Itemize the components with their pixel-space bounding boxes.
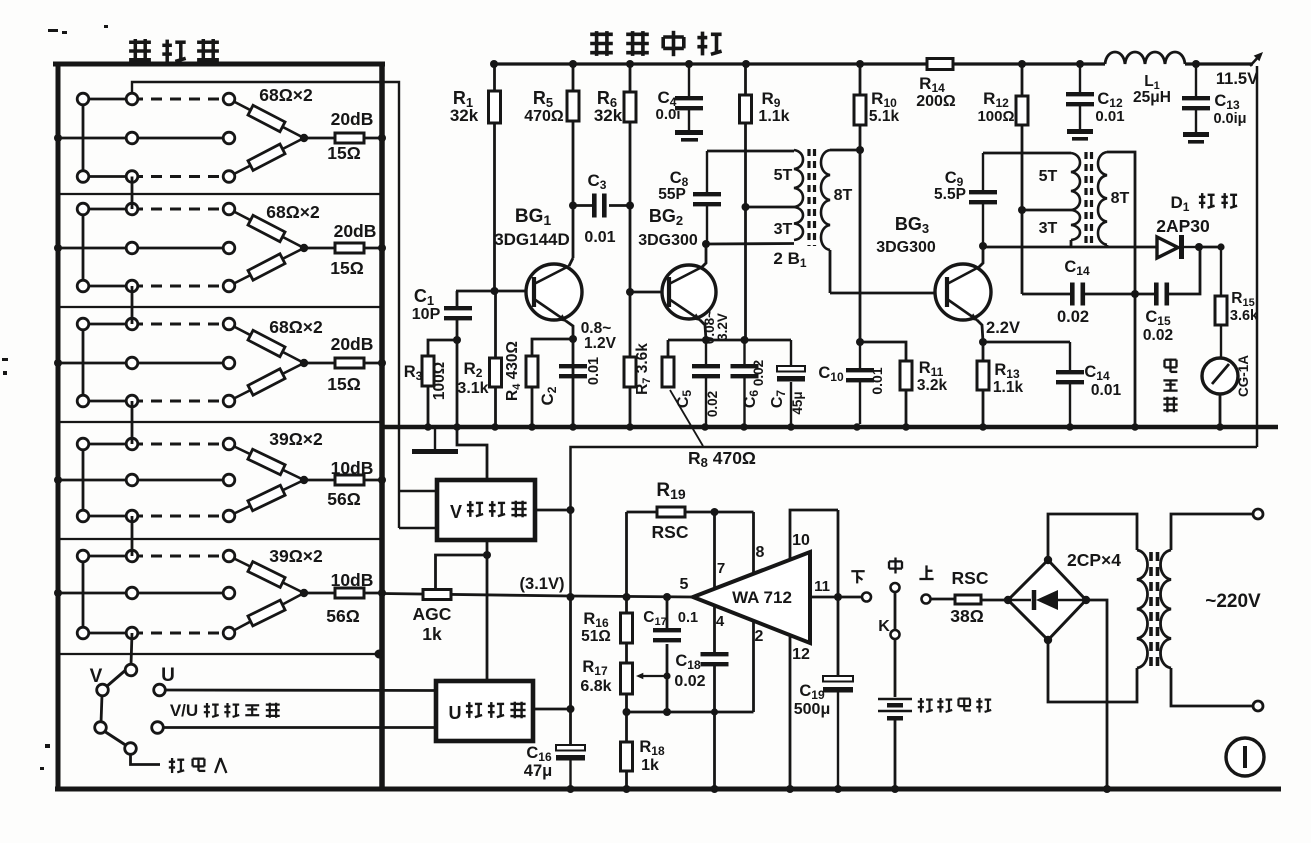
svg-text:V/U: V/U bbox=[170, 701, 198, 720]
svg-text:0.02: 0.02 bbox=[1143, 327, 1173, 344]
svg-text:56Ω: 56Ω bbox=[326, 606, 360, 626]
wire bridge bottom to transformer bbox=[1048, 640, 1137, 702]
power transformer core bbox=[1151, 552, 1158, 666]
resistor R10 bbox=[854, 95, 866, 125]
wire output stage 4 bbox=[304, 479, 382, 482]
resistor R2 bbox=[490, 358, 502, 387]
switch contact U bbox=[154, 684, 166, 696]
svg-text:47μ: 47μ bbox=[524, 762, 552, 780]
label R12 100 bbox=[977, 89, 1014, 125]
wire C18 down bbox=[713, 666, 716, 789]
label 2AP30 bbox=[1156, 216, 1210, 236]
transformer 2B1 secondary 8T bbox=[821, 150, 830, 250]
wire pin10 bbox=[790, 510, 838, 559]
svg-text:U: U bbox=[161, 665, 175, 686]
svg-text:12: 12 bbox=[792, 646, 810, 663]
svg-text:68Ω×2: 68Ω×2 bbox=[269, 317, 323, 337]
label L1 25uH bbox=[1133, 73, 1171, 106]
svg-text:5: 5 bbox=[680, 576, 689, 593]
label C15 value bbox=[1143, 327, 1173, 344]
svg-text:20dB: 20dB bbox=[331, 109, 374, 129]
svg-text:10dB: 10dB bbox=[331, 570, 374, 590]
label 10dB stage 4 bbox=[331, 458, 374, 478]
switch contact signal bbox=[125, 743, 137, 755]
label pin5 bbox=[680, 576, 689, 593]
inductor L1 bbox=[1105, 52, 1185, 64]
resistor R3 bbox=[422, 356, 434, 386]
svg-text:2: 2 bbox=[755, 628, 764, 645]
wire stage5 to V switch bbox=[131, 633, 132, 665]
label R18 1k bbox=[639, 738, 665, 774]
bus nodes bbox=[567, 785, 1112, 793]
wire 8T top to C14 node bbox=[1107, 152, 1135, 294]
power transformer secondary bbox=[1161, 550, 1172, 668]
label C13 0.01u bbox=[1213, 92, 1246, 127]
bridge diode bbox=[1011, 590, 1083, 610]
svg-text:0.01: 0.01 bbox=[584, 229, 615, 246]
transistor BG3 bbox=[935, 264, 991, 321]
svg-text:AGC: AGC bbox=[413, 604, 452, 624]
label RSC under R19 bbox=[652, 522, 689, 542]
label shang bbox=[919, 565, 933, 579]
battery bbox=[878, 699, 912, 721]
capacitor C9 bbox=[969, 153, 997, 246]
svg-text:WA 712: WA 712 bbox=[732, 588, 792, 607]
wire supply feed line bbox=[571, 447, 1258, 597]
resistor R15 bbox=[1215, 247, 1227, 358]
label R16 51 bbox=[581, 610, 611, 645]
node supply/main bbox=[567, 593, 575, 601]
wire right frame supply drop bbox=[1256, 66, 1259, 447]
wire R18 column bbox=[625, 712, 628, 789]
label C10 bbox=[818, 364, 844, 384]
wire R3 to rail bbox=[427, 386, 430, 424]
wire detector line bbox=[983, 246, 1157, 249]
svg-text:1.2V: 1.2V bbox=[584, 335, 617, 352]
wire diagonal lower stage 2 bbox=[229, 248, 304, 286]
switch contact K bbox=[891, 630, 900, 639]
svg-text:2CP×4: 2CP×4 bbox=[1067, 550, 1121, 570]
svg-text:32k: 32k bbox=[450, 106, 479, 125]
wires attenuator stage 2 bbox=[58, 209, 229, 286]
node right frame stage 2 bbox=[378, 244, 386, 252]
wire C17 column bbox=[666, 597, 669, 712]
capacitor C2 bbox=[559, 364, 587, 378]
ground bar below rail bbox=[412, 429, 458, 454]
label 0.8~3.2V rot bbox=[702, 310, 730, 344]
label BG1 bbox=[515, 206, 552, 228]
svg-text:10dB: 10dB bbox=[331, 458, 374, 478]
label C6 bbox=[742, 390, 761, 409]
svg-text:R7​ 3.6k: R7​ 3.6k bbox=[634, 343, 653, 395]
label R9 1.1k bbox=[758, 89, 789, 125]
wire C15 to D1 node bbox=[1169, 249, 1200, 294]
resistor R13 bbox=[977, 361, 989, 390]
label 5T b bbox=[1039, 168, 1058, 185]
label C14a value bbox=[1057, 308, 1089, 326]
resistor series output stage 5 bbox=[335, 588, 364, 598]
label dianpingbiao bbox=[1163, 359, 1177, 413]
divider line 3 bbox=[58, 421, 382, 423]
resistor series output stage 2 bbox=[335, 243, 364, 253]
wire supply column lower bbox=[569, 597, 572, 745]
wire tap link bbox=[746, 206, 795, 209]
svg-text:R8​ 470Ω: R8​ 470Ω bbox=[688, 448, 756, 470]
resistor 68x2 lower stage 2 bbox=[248, 254, 285, 280]
label C17 0.1 bbox=[643, 609, 698, 628]
resistor R4 bbox=[526, 356, 538, 387]
resistor R12 bbox=[1016, 96, 1028, 125]
wire C8 top to 5T bbox=[707, 150, 794, 153]
resistor series output stage 4 bbox=[335, 475, 364, 485]
bottom bus bbox=[55, 787, 1281, 792]
wires attenuator stage 3 bbox=[58, 324, 229, 401]
svg-text:V: V bbox=[450, 502, 462, 522]
label R17 6.8k bbox=[580, 658, 611, 695]
svg-text:2AP30: 2AP30 bbox=[1156, 216, 1210, 236]
wire R19 left column bbox=[625, 512, 628, 597]
label C4 0.01 bbox=[655, 88, 680, 123]
wire pin4 C18 bbox=[713, 606, 716, 652]
wire interstage 2-3 bbox=[131, 286, 134, 324]
wire C14 node to rail bbox=[1134, 294, 1137, 424]
switch contacts stage 5 bbox=[77, 550, 235, 639]
svg-text:3T: 3T bbox=[774, 221, 793, 238]
leader R8 bbox=[670, 390, 703, 446]
capacitor C13 bbox=[1182, 64, 1210, 144]
opamp WA712 bbox=[693, 552, 810, 643]
resistor 68x2 upper stage 2 bbox=[248, 215, 285, 241]
label pin11 bbox=[814, 578, 830, 595]
resistor R18 bbox=[621, 742, 633, 771]
node tap 2B1 bbox=[742, 203, 750, 211]
switch contacts stage 1 bbox=[77, 93, 235, 182]
svg-text:~220V: ~220V bbox=[1205, 591, 1261, 612]
switch contact second bbox=[152, 722, 164, 734]
supply arrow 11.5V bbox=[1250, 52, 1263, 66]
svg-text:11.5V: 11.5V bbox=[1216, 70, 1258, 88]
wire meter to rail bbox=[1219, 394, 1222, 424]
node C3 right bbox=[626, 202, 634, 210]
label V bbox=[90, 666, 103, 687]
svg-text:8: 8 bbox=[756, 544, 765, 561]
wire R3 branch bbox=[428, 340, 457, 356]
node main C17 bbox=[663, 593, 671, 601]
wire R2 column bbox=[494, 291, 497, 424]
label pin8 bbox=[756, 544, 765, 561]
resistor R1 bbox=[489, 91, 501, 123]
V tuner box bbox=[437, 480, 535, 540]
svg-text:38Ω: 38Ω bbox=[950, 606, 984, 626]
label R11 3.2k bbox=[917, 359, 948, 394]
label C9 5.5P bbox=[934, 169, 966, 203]
switch contact V pole bbox=[97, 684, 109, 696]
label C7 bbox=[769, 390, 788, 409]
wire C19 column bbox=[837, 510, 840, 676]
label 20dB stage 2 bbox=[334, 221, 377, 241]
wire BG2 emitter bbox=[700, 320, 706, 340]
U tuner box bbox=[436, 681, 533, 741]
capacitor C8 bbox=[693, 151, 721, 244]
wiper arrow R17 bbox=[636, 673, 667, 680]
svg-text:6.8k: 6.8k bbox=[580, 678, 611, 695]
node BG2 base bbox=[626, 288, 634, 296]
svg-text:39Ω×2: 39Ω×2 bbox=[269, 546, 323, 566]
node C1/R3 bbox=[453, 336, 461, 344]
svg-text:200Ω: 200Ω bbox=[916, 93, 956, 110]
label D1 jianbo bbox=[1171, 193, 1238, 214]
svg-text:U: U bbox=[449, 703, 462, 723]
svg-text:3.2k: 3.2k bbox=[917, 377, 948, 394]
wire pin7 bbox=[713, 512, 716, 589]
label 56Ω stage 5 bbox=[326, 606, 360, 626]
resistor R9 bbox=[740, 95, 752, 123]
label AGC 1k bbox=[413, 604, 452, 644]
svg-text:100Ω: 100Ω bbox=[977, 108, 1014, 125]
svg-text:1.1k: 1.1k bbox=[993, 379, 1024, 396]
label U bbox=[161, 665, 175, 686]
wire U out bbox=[533, 708, 571, 711]
terminal AC top bbox=[1253, 509, 1263, 519]
label C3 bbox=[588, 171, 607, 192]
node D1 out bbox=[1195, 243, 1203, 251]
svg-text:0.0iμ: 0.0iμ bbox=[1213, 111, 1246, 127]
resistor 68x2 lower stage 1 bbox=[248, 144, 285, 170]
capacitor C14a bbox=[1070, 283, 1085, 306]
svg-text:4: 4 bbox=[716, 613, 725, 630]
node tap T3 bbox=[1018, 206, 1026, 214]
label R4 430ohm bbox=[504, 341, 523, 401]
wire R13 wires bbox=[982, 342, 985, 424]
label C5 value bbox=[705, 391, 720, 417]
node left frame stage 3 bbox=[54, 359, 62, 367]
label pin10 bbox=[792, 532, 810, 549]
svg-text:R4​ 430Ω: R4​ 430Ω bbox=[504, 341, 523, 401]
resistor 68x2 upper stage 4 bbox=[248, 449, 285, 474]
label C14b 0.01 bbox=[1084, 363, 1121, 399]
node BG3 emitter bbox=[979, 338, 987, 346]
divider line 2 bbox=[58, 306, 382, 308]
label V/U switch (V/U转换开关) bbox=[170, 701, 280, 720]
label zhong bbox=[889, 558, 902, 574]
svg-text:10: 10 bbox=[792, 532, 810, 549]
svg-text:68Ω×2: 68Ω×2 bbox=[266, 202, 320, 222]
label BG3 bbox=[895, 214, 929, 236]
transformer 2B1 core bbox=[809, 149, 815, 246]
label battery (镉镍电池) bbox=[918, 698, 991, 713]
divider line 1 bbox=[58, 193, 382, 195]
label C12 0.01 bbox=[1095, 90, 1124, 125]
svg-text:0.01: 0.01 bbox=[586, 357, 602, 385]
svg-text:15Ω: 15Ω bbox=[327, 143, 361, 163]
svg-text:51Ω: 51Ω bbox=[581, 628, 611, 645]
label 68Ω×2 stage 3 bbox=[269, 317, 323, 337]
wire output stage 3 bbox=[304, 362, 382, 365]
wire diagonal upper stage 1 bbox=[229, 99, 304, 138]
capacitor C7 electrolytic bbox=[777, 340, 805, 424]
resistor AGC 1k bbox=[423, 590, 451, 600]
node converge stage 2 bbox=[300, 244, 308, 252]
wire C1 to node bbox=[456, 320, 459, 340]
wire R4 link bbox=[532, 339, 571, 356]
resistor 68x2 upper stage 3 bbox=[248, 330, 285, 356]
wire BG1 base line bbox=[456, 290, 533, 293]
switch contact zhong bbox=[891, 583, 900, 592]
svg-text:500μ: 500μ bbox=[794, 701, 830, 718]
wire signal input bbox=[131, 753, 161, 765]
capacitor C12 bbox=[1066, 64, 1094, 141]
node C14/C15 bbox=[1131, 290, 1139, 298]
wire pin8 bbox=[752, 512, 755, 575]
label C10 value bbox=[869, 367, 885, 394]
terminal AC bottom bbox=[1253, 701, 1263, 711]
wire output stage 1 bbox=[304, 137, 382, 140]
label BG2 bbox=[649, 206, 683, 228]
label 220V bbox=[1205, 591, 1261, 612]
label R10 5.1k bbox=[869, 89, 900, 125]
svg-text:32k: 32k bbox=[594, 106, 623, 125]
label 8T bbox=[834, 187, 853, 204]
ground rail nodes bbox=[424, 423, 1224, 431]
node bl1 bbox=[623, 708, 719, 716]
switch contact V upper bbox=[125, 664, 137, 676]
label C19 500u bbox=[794, 682, 830, 718]
node V bottom bbox=[483, 551, 491, 559]
wire BG1 emitter bbox=[566, 321, 573, 339]
resistor R6 bbox=[624, 92, 636, 122]
label R6 32k bbox=[594, 88, 623, 125]
wire to V tuner top bbox=[457, 340, 487, 480]
node converge stage 5 bbox=[300, 589, 308, 597]
node e2 bbox=[741, 336, 749, 344]
svg-text:0.01: 0.01 bbox=[869, 367, 885, 394]
meter (level meter) bbox=[1202, 358, 1238, 394]
wire R16R17 column bbox=[625, 597, 628, 712]
svg-text:45μ: 45μ bbox=[790, 391, 805, 414]
wire BG2 base line bbox=[630, 291, 668, 294]
node V out bbox=[567, 506, 575, 514]
svg-text:V: V bbox=[90, 666, 103, 687]
label U tuner bbox=[449, 702, 526, 723]
node main R19 bbox=[623, 593, 631, 601]
svg-text:K: K bbox=[878, 618, 890, 635]
label C2 bbox=[538, 386, 559, 405]
label 3.1V bbox=[520, 575, 565, 593]
capacitor C3 bbox=[592, 194, 607, 218]
resistor series output stage 1 bbox=[335, 133, 364, 143]
wire C2 column bbox=[572, 339, 575, 424]
wire R8 drop bbox=[667, 340, 670, 357]
label 68Ω×2 stage 2 bbox=[266, 202, 320, 222]
svg-text:8T: 8T bbox=[834, 187, 853, 204]
wire bridge top to transformer bbox=[1048, 514, 1137, 560]
capacitor C1 bbox=[444, 306, 472, 320]
svg-text:1.1k: 1.1k bbox=[758, 108, 789, 125]
wire diagonal upper stage 3 bbox=[229, 324, 304, 363]
resistor 68x2 lower stage 5 bbox=[248, 600, 285, 626]
svg-text:3.2V: 3.2V bbox=[715, 313, 730, 341]
label C8 55P bbox=[658, 169, 688, 203]
svg-text:55P: 55P bbox=[658, 186, 686, 203]
capacitor C6 bbox=[731, 340, 759, 424]
wire R4 to rail bbox=[531, 387, 534, 424]
label R7 3.6k bbox=[634, 343, 653, 395]
wire BG1 collector column bbox=[569, 64, 573, 266]
wire shang to RSC bbox=[931, 598, 956, 601]
label pin7 bbox=[717, 560, 725, 577]
wire secondary bottom bbox=[1171, 668, 1253, 706]
divider line 5 bbox=[58, 650, 384, 659]
node pin7 top bbox=[711, 508, 719, 516]
node base divider bbox=[491, 287, 499, 295]
wire AGC branch bbox=[436, 555, 488, 592]
label 100ohm bbox=[431, 362, 448, 400]
svg-text:8T: 8T bbox=[1111, 190, 1130, 207]
svg-text:25μH: 25μH bbox=[1133, 89, 1171, 106]
wire interstage 4-5 bbox=[131, 516, 134, 556]
transformer T3 primary 5T bbox=[1071, 153, 1080, 210]
wires attenuator stage 4 bbox=[58, 444, 229, 516]
label 8T b bbox=[1111, 190, 1130, 207]
label 3DG300 b bbox=[876, 239, 936, 256]
switch contacts stage 2 bbox=[77, 203, 235, 292]
scan marks bbox=[2, 25, 108, 770]
label 11.5V bbox=[1216, 70, 1258, 88]
node right frame stage 4 bbox=[378, 476, 386, 484]
node emitter BG1 bbox=[569, 335, 577, 343]
label 39Ω×2 stage 4 bbox=[269, 429, 323, 449]
transistor BG2 bbox=[662, 265, 716, 321]
transformer T3 primary 3T bbox=[1071, 210, 1080, 240]
label C18 0.02 bbox=[674, 652, 705, 690]
resistor R16 bbox=[621, 613, 633, 643]
resistor R17 pot bbox=[621, 663, 633, 694]
label 3T b bbox=[1039, 220, 1058, 237]
wire diagonal lower stage 1 bbox=[229, 138, 304, 177]
wire interstage 1-2 bbox=[131, 177, 134, 210]
label 15Ω stage 3 bbox=[327, 374, 361, 394]
wire R9 column bbox=[744, 64, 747, 340]
label RSC bbox=[952, 568, 989, 588]
divider line 4 bbox=[58, 538, 382, 540]
wire bottom link bbox=[627, 711, 754, 714]
label pin12 bbox=[792, 646, 810, 663]
label 15Ω stage 1 bbox=[327, 143, 361, 163]
transformer 2B1 primary 5T bbox=[794, 150, 803, 207]
wire R11 branch bbox=[860, 342, 906, 361]
label R5 470 bbox=[524, 88, 564, 125]
wires attenuator stage 1 bbox=[58, 99, 229, 177]
wire C14a right bbox=[1085, 293, 1154, 296]
wire 8T bottom drop bbox=[829, 250, 832, 293]
svg-text:1k: 1k bbox=[641, 757, 659, 774]
wire 8T top bbox=[830, 149, 860, 152]
resistor 68x2 upper stage 1 bbox=[248, 105, 285, 131]
node left frame stage 4 bbox=[54, 476, 62, 484]
node BG2 collector bbox=[702, 240, 710, 248]
label 3DG144D bbox=[494, 230, 570, 249]
attenuator box frame bbox=[53, 62, 385, 790]
wire emitter bypass bus bbox=[668, 339, 791, 342]
label 15Ω stage 2 bbox=[330, 258, 364, 278]
wire main signal line bbox=[382, 594, 693, 598]
label V tuner bbox=[450, 501, 527, 522]
node right frame stage 3 bbox=[378, 359, 386, 367]
terminal xia bbox=[862, 593, 871, 602]
resistor 68x2 upper stage 5 bbox=[248, 562, 285, 588]
wire C3 link bbox=[573, 204, 630, 207]
switch contacts stage 3 bbox=[77, 318, 235, 407]
